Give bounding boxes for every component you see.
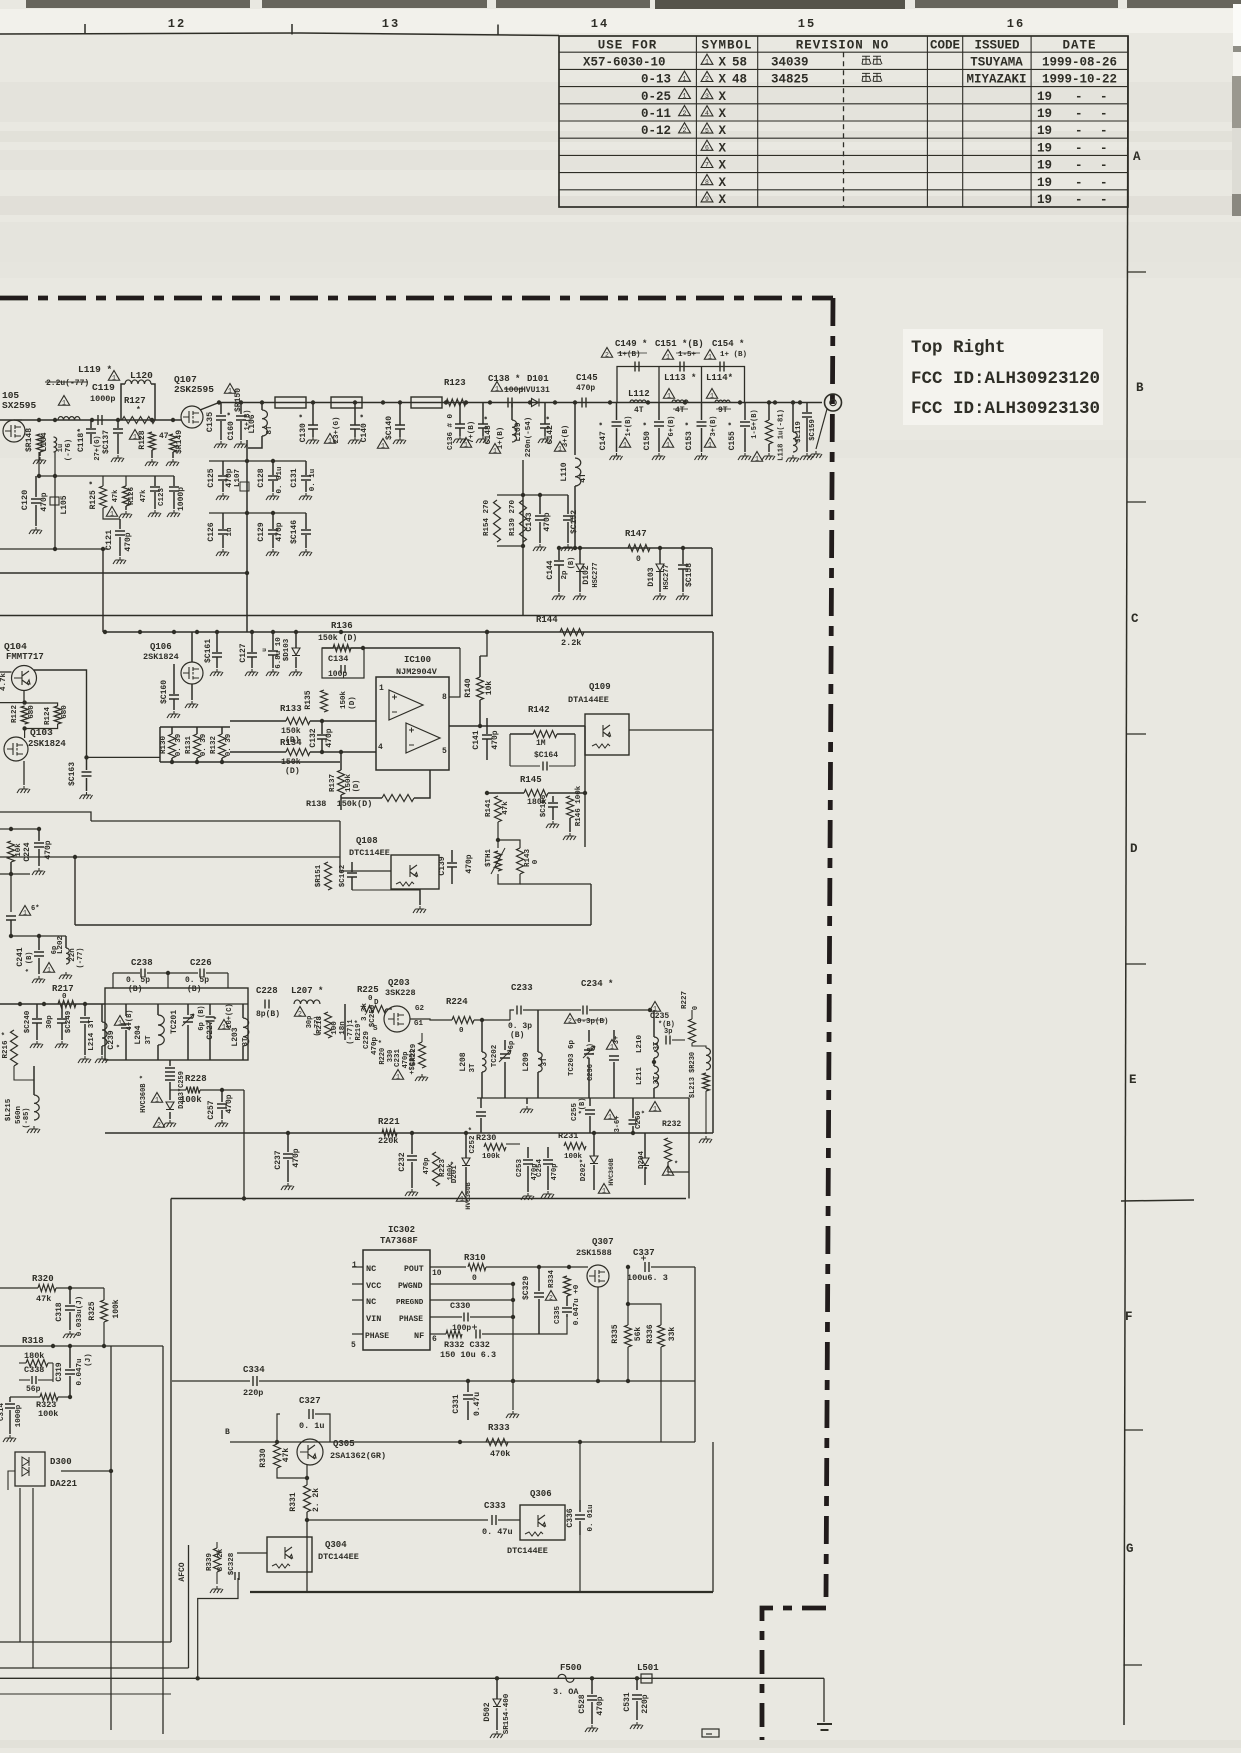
svg-text:1: 1 [381,442,385,449]
transistor Q103 2SK1824 [4,737,28,761]
wire R128 gnd [151,450,153,458]
wire R230 row [506,1143,520,1145]
svg-text:47k: 47k [282,1448,291,1463]
svg-text:4+(B): 4+(B) [126,1009,134,1030]
ruler tick 13/14 [497,25,499,36]
svg-text:R122: R122 [11,705,19,724]
wire R137 [340,752,342,770]
svg-text:56p: 56p [26,1385,41,1394]
svg-text:L118 1u(-81): L118 1u(-81) [778,409,786,461]
triangle 3-6p [604,1110,615,1120]
wire bus to ground corner [823,1678,825,1722]
resistor R126 47k vertical [123,486,130,506]
svg-text:DATE: DATE [1062,39,1096,53]
wire R325 bottom to D300 column [110,1346,112,1471]
triangle C149 [601,348,612,358]
svg-text:L208: L208 [459,1052,468,1071]
capacitor C132 470p [321,721,323,734]
resistor R124 680 vertical [54,706,61,724]
resistor R216 vertical [11,1030,18,1066]
svg-text:R221: R221 [378,1117,400,1127]
capacitor C150 to ground [658,403,660,421]
wire R145 row [487,792,524,794]
svg-text:2.2k: 2.2k [561,638,581,648]
capacitor SC146 [305,513,307,529]
capacitor SC163 [86,757,88,770]
resistor R127 [122,417,155,424]
svg-text:1: 1 [352,1261,357,1270]
svg-text:8: 8 [705,179,709,186]
svg-text:R137: R137 [329,774,337,792]
svg-text:X: X [719,107,727,121]
capacitor C126 1u [222,513,224,529]
capacitor C314 1000p [9,1397,11,1402]
svg-text:0. 1u: 0. 1u [299,1421,325,1431]
triangle 23(G) [324,434,335,444]
svg-text:1: 1 [155,1096,159,1103]
svg-text:C142 *: C142 * [546,416,555,445]
svg-text:470p: 470p [225,1094,234,1113]
svg-text:C131: C131 [290,468,299,487]
svg-text:470p: 470p [44,840,53,859]
tuned circuit box E1 [105,988,248,1060]
svg-text:R145: R145 [520,775,542,785]
svg-text:L204: L204 [134,1025,143,1044]
svg-text:R225: R225 [357,985,379,995]
svg-text:R218: R218 [316,1016,324,1035]
wire mid audio y1520 [307,1519,488,1521]
triangle C239 [114,1016,125,1026]
capacitor C239 [125,1004,127,1016]
transistor Q105 SX2595 [3,420,25,442]
svg-text:PREGND: PREGND [396,1299,424,1307]
capacitor C138 series [508,398,512,408]
capacitor C154 series [720,362,724,372]
svg-text:3+(B): 3+(B) [562,425,570,448]
svg-text:MIYAZAKI: MIYAZAKI [966,73,1026,87]
junction dots mid bus [311,400,315,404]
svg-text:1-5+: 1-5+ [678,351,697,359]
IC302 left pin stubs [352,1266,363,1268]
triangle HVC360B D201 [456,1192,467,1202]
svg-text:0. 01u: 0. 01u [587,1504,595,1531]
triangle D202 [598,1184,609,1194]
svg-text:REVISION NO: REVISION NO [796,39,890,53]
svg-text:470p: 470p [551,1164,559,1181]
svg-text:(J): (J) [85,1353,93,1367]
svg-text:C235: C235 [650,1012,669,1021]
svg-text:4: 4 [378,743,383,752]
capacitor C528 470p [591,1678,593,1694]
svg-text:100k: 100k [112,1299,121,1318]
svg-text:L119 *: L119 * [78,364,112,375]
svg-text:5: 5 [705,127,709,134]
triangle near C231 [392,1070,403,1080]
svg-text:19: 19 [1037,159,1052,173]
triangle C234 [564,1014,575,1024]
svg-text:C254: C254 [536,1159,544,1178]
wire thermistor bank [498,840,520,848]
svg-text:DTA144EE: DTA144EE [568,695,609,705]
svg-text:1: 1 [495,385,499,392]
svg-text:R126: R126 [128,487,136,506]
svg-text:(B): (B) [510,1031,524,1040]
svg-text:VCC: VCC [366,1281,381,1291]
svg-text:1: 1 [228,387,232,394]
svg-text:-: - [1075,176,1083,190]
svg-text:1: 1 [708,353,712,360]
svg-text:R333: R333 [488,1423,510,1433]
wire input bus left [0,419,181,421]
svg-text:R130: R130 [160,736,168,755]
svg-text:1u: 1u [57,444,65,452]
svg-text:L207 *: L207 * [291,986,323,996]
svg-text:2SK1588: 2SK1588 [576,1248,612,1258]
capacitor C257 470p [221,1090,223,1102]
wire R bank bottom [160,761,340,763]
svg-text:PWGND: PWGND [398,1282,423,1291]
svg-text:X: X [719,159,727,173]
svg-text:1u: 1u [226,527,234,536]
svg-text:ISSUED: ISSUED [974,39,1020,53]
wire L109 rail down [522,460,524,616]
svg-text:1: 1 [653,1105,657,1112]
svg-text:C132: C132 [309,728,318,747]
svg-text:HVC360B *: HVC360B * [140,1075,148,1113]
junction left column [9,934,13,938]
capacitor C134 100p box [322,648,364,678]
svg-text:POUT: POUT [404,1265,424,1274]
Q108 internal resistor [396,882,414,886]
capacitor C140 to ground [354,403,356,426]
svg-text:Q307: Q307 [592,1237,614,1247]
svg-text:B: B [1136,381,1144,395]
svg-text:C160 *: C160 * [227,412,236,441]
svg-text:$C161: $C161 [204,639,213,663]
svg-text:C331: C331 [452,1394,461,1413]
wire C233 row [510,1010,514,1020]
wire C143 tap [523,494,568,496]
svg-text:C236 *(B): C236 *(B) [587,1043,595,1081]
svg-text:R224: R224 [446,997,468,1007]
svg-text:0: 0 [532,859,540,864]
svg-text:C336: C336 [566,1508,575,1527]
table row5 use-for triangle 2 [679,123,691,133]
svg-text:4T: 4T [675,406,685,415]
svg-text:16: 16 [1007,17,1025,31]
wire R134 row [230,751,286,753]
svg-text:1000p: 1000p [90,394,116,404]
wire C234 row [560,1009,581,1011]
svg-text:C149 *: C149 * [615,339,647,349]
wire Q304 ground return [198,1578,238,1678]
svg-text:48: 48 [732,73,747,87]
svg-text:470p: 470p [325,728,334,747]
Q109 internal resistor [592,744,610,748]
svg-text:9T: 9T [718,406,728,415]
svg-text:C: C [1131,612,1139,626]
wire R330 column [276,1442,278,1444]
capacitor SC249 [61,1004,63,1018]
wire NF to x539 [482,1333,539,1335]
svg-text:$C328: $C328 [228,1552,236,1575]
svg-text:0. 5p: 0. 5p [126,976,150,985]
inductor L119 [58,417,80,420]
transistor Q107 2SK2595 [181,406,203,428]
capacitor C241 [38,936,40,950]
wire opamp out to Q109 [449,725,585,727]
svg-text:R223: R223 [439,1159,447,1178]
svg-text:C134: C134 [328,654,348,664]
wire SR149 gnd [172,452,174,458]
diode SD103 zener [292,648,300,656]
svg-text:1: 1 [755,455,759,462]
svg-text:C333: C333 [484,1501,506,1511]
svg-text:Q203: Q203 [388,978,410,988]
svg-text:R141: R141 [485,799,493,818]
wire Q104 emitter node [23,691,25,703]
wire Q307 out node x628 [626,1265,630,1269]
svg-text:2SK1824: 2SK1824 [143,652,179,662]
svg-text:7+(B): 7+(B) [468,421,476,444]
capacitor SC159 [806,403,808,413]
svg-text:220n(-54): 220n(-54) [525,417,533,458]
svg-text:R330: R330 [259,1448,268,1467]
svg-text:C123: C123 [158,488,166,507]
svg-text:4T: 4T [579,473,588,483]
svg-text:1: 1 [396,1073,400,1080]
svg-text:0. 39: 0. 39 [175,733,183,756]
svg-text:C153 *: C153 * [685,422,694,451]
symbol column triangle 8 [701,175,713,185]
svg-text:FCC ID:ALH30923120: FCC ID:ALH30923120 [911,369,1100,389]
svg-text:6.8u 10: 6.8u 10 [275,637,283,669]
triangle R334 [545,1291,556,1301]
resistor R138 150k(D) [382,795,414,802]
junction dots on C bus [103,630,107,634]
capacitor C129 470p [272,513,274,529]
wire R125 bottom to C121 [103,508,120,519]
svg-text:(B): (B) [128,985,142,994]
wire bottom y1668 AFCO return [0,1667,189,1669]
svg-text:470p: 470p [225,468,234,487]
svg-text:C335: C335 [554,1306,562,1325]
wire F mid bus y1381 [453,1380,695,1382]
svg-text:L211: L211 [636,1067,644,1086]
svg-text:C129: C129 [257,522,266,541]
svg-text:0: 0 [62,993,67,1001]
capacitor C144 2p [558,548,560,560]
svg-text:R138 150k(D): R138 150k(D) [306,799,372,809]
svg-text:(-77): (-77) [77,947,85,968]
wire L104 column down [54,452,56,476]
svg-text:TSUYAMA: TSUYAMA [970,55,1023,69]
wire PWGND PREGND to x513 [430,1283,513,1285]
resistor SR151 vertical [325,862,332,890]
triangle 7(B) [460,438,471,448]
svg-text:-: - [1075,124,1083,138]
shield boundary bottom jog dashed [762,1608,826,1740]
resistor R332 150 [446,1331,462,1338]
transistor Q304 DTC144EE [267,1537,312,1572]
wire C238 C226 drops [112,973,114,988]
antenna ground stub [816,409,827,449]
triangle 1(B) C147 [619,438,630,448]
svg-text:19: 19 [1037,90,1052,104]
svg-text:C334: C334 [243,1365,265,1375]
svg-text:19: 19 [1037,193,1052,207]
symbol column triangle 5 [701,123,713,133]
svg-text:C318: C318 [55,1302,64,1321]
svg-text:0. 47u: 0. 47u [482,1527,513,1537]
svg-text:0: 0 [636,555,641,564]
wire Q304 base feed [237,1552,267,1554]
svg-text:$C160: $C160 [160,680,169,704]
svg-text:10k: 10k [485,681,494,696]
capacitor 6.8u 10 electrolytic [272,632,274,650]
wire R154 loop top [497,494,523,496]
capacitor C148 to ground [482,403,484,425]
transistor Q305 2SA1362 [297,1439,323,1465]
resistor R325 100k vertical [101,1300,108,1322]
filter block 3 [411,397,442,408]
svg-text:150k: 150k [281,726,301,736]
svg-text:C120: C120 [20,490,30,510]
svg-text:18n: 18n [339,1021,347,1035]
svg-text:3+: 3+ [613,1036,621,1044]
svg-text:2: 2 [683,127,687,134]
svg-text:C140 *: C140 * [360,414,369,443]
wire C224 node [11,828,39,830]
svg-text:$L213 $R230: $L213 $R230 [689,1052,697,1098]
triangle D203 1 [151,1093,162,1103]
svg-text:C233: C233 [511,983,533,993]
wire SC163 node right [87,756,161,758]
svg-text:6p (B): 6p (B) [198,1005,206,1030]
svg-text:6: 6 [705,144,709,151]
junction dots E bus [18,1002,22,1006]
svg-text:L112: L112 [628,389,650,399]
wire C333 to Q306 [498,1519,520,1521]
svg-text:Q304: Q304 [325,1540,347,1550]
svg-text:2: 2 [298,1010,302,1017]
wire SR148 column down [38,420,40,476]
wire R136 row to op-amp [322,647,333,649]
capacitor SC161 [216,632,218,652]
wire left mid harness A [0,812,91,821]
svg-text:C138 *: C138 * [488,374,520,384]
table row3 use-for triangle 1 [679,88,691,98]
svg-text:-: - [1075,193,1083,207]
triangle 10p(C) [218,1020,229,1030]
wire R216 to SL215 [14,1066,34,1080]
inductor L110 vertical 4T [574,403,576,456]
svg-text:7: 7 [705,162,709,169]
svg-text:E: E [1129,1073,1137,1087]
capacitor C155 to ground [744,403,746,421]
svg-text:USE FOR: USE FOR [598,39,658,53]
wire B-lower rail [246,440,248,632]
svg-text:R232: R232 [662,1120,681,1129]
capacitor series in left column [6,916,16,920]
capacitor 1000p [173,476,175,486]
resistor R137 150k vertical [338,770,345,795]
wire right column x585 [584,726,586,847]
resistor SR149 vertical [170,434,177,452]
svg-text:DTC144EE: DTC144EE [507,1546,548,1556]
triangle 6 note [19,906,30,916]
svg-text:L209: L209 [522,1052,531,1071]
capacitor C141 470p [486,718,488,734]
wire C section bottom bus [75,924,591,926]
triangle C138 [491,382,502,392]
svg-text:47k: 47k [112,490,120,503]
svg-text:*: * [642,1110,650,1114]
capacitor C151 series [680,362,684,372]
svg-text:C125: C125 [207,468,216,487]
svg-text:-: - [1100,124,1108,138]
svg-text:DTC114EE: DTC114EE [349,848,390,858]
svg-text:R133: R133 [280,704,302,714]
svg-text:19: 19 [1037,107,1052,121]
svg-text:8: 8 [442,693,447,702]
svg-text:C238: C238 [131,958,153,968]
svg-text:1: 1 [379,684,384,693]
right scan edge artifacts [1233,4,1241,46]
svg-text:C144: C144 [546,560,555,579]
svg-text:CODE: CODE [930,39,960,53]
svg-text:$R229: $R229 [410,1043,418,1066]
svg-text:L202: L202 [57,936,65,955]
wire E bus main [0,1003,105,1005]
wire R154 loop bottom [497,545,523,547]
resistor R223 100k vertical [433,1152,440,1186]
svg-text:1+ (B): 1+ (B) [720,351,747,359]
wire right column x695 [694,1267,696,1442]
svg-text:1: 1 [328,437,332,444]
svg-text:1: 1 [118,1019,122,1026]
svg-text:$C329: $C329 [522,1276,531,1300]
wire AFCO vertical [188,1545,190,1668]
svg-text:(-76): (-76) [65,439,73,462]
table row1 kanji note [862,56,871,64]
svg-text:L106: L106 [248,414,257,433]
svg-text:2: 2 [605,351,609,358]
svg-text:L210: L210 [636,1035,644,1054]
svg-text:1: 1 [602,1187,606,1194]
svg-text:C139: C139 [438,856,447,875]
svg-text:0-12: 0-12 [641,124,671,138]
svg-text:$D103: $D103 [283,638,291,661]
svg-text:D300: D300 [50,1457,72,1467]
ground bottom right [817,1724,832,1730]
capacitor C160 [240,403,242,415]
svg-text:A: A [1133,150,1141,164]
IC302 box [363,1250,430,1350]
svg-text:-: - [1100,176,1108,190]
svg-text:Top Right: Top Right [911,338,1006,358]
resistor R143 0 vertical [517,848,524,874]
capacitor SC152 [567,495,569,514]
wire R144 drop to E section [712,632,714,1133]
svg-text:47k: 47k [140,490,148,503]
svg-text:0-13: 0-13 [641,73,671,87]
svg-text:PHASE: PHASE [399,1315,423,1324]
inductor L118 vertical [792,403,794,433]
svg-text:19: 19 [1037,141,1052,155]
svg-text:-: - [1100,141,1108,155]
junction dots input bus [37,418,41,422]
